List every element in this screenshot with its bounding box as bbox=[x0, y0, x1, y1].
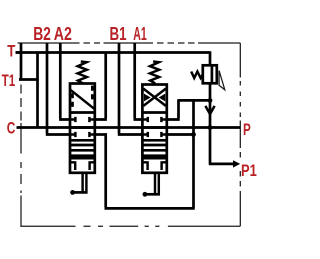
V2 stem bbox=[83, 173, 87, 194]
relief valve adjust flag bbox=[219, 71, 225, 90]
V1 ladder lines bbox=[142, 145, 166, 156]
V2 bottom box pins bbox=[70, 161, 95, 170]
enclosure border left (dashed lower part) bbox=[20, 85, 22, 227]
wire right valve row2 to loop bbox=[167, 133, 194, 136]
wire T line bbox=[16, 51, 211, 54]
valve V2 body boxes bbox=[70, 84, 95, 173]
P1 arrowhead bbox=[233, 160, 240, 167]
valve V1 body boxes bbox=[142, 85, 166, 173]
V2 lever ball bbox=[70, 190, 75, 195]
V2 box1 right pins bbox=[92, 86, 95, 100]
wire A2 port line bbox=[59, 43, 70, 120]
wire T1 to T drop line bbox=[19, 78, 39, 81]
V1 row2 pins bbox=[142, 132, 166, 137]
V2 ladder lines bbox=[70, 145, 95, 156]
left border solid port segment (T to T1) bbox=[20, 43, 23, 80]
V1 lever ball bbox=[143, 192, 148, 197]
wire left valve row2 to sump loop bbox=[95, 133, 107, 136]
relief valve piston bar bbox=[211, 65, 214, 83]
svg-text:A1: A1 bbox=[133, 23, 147, 44]
svg-text:P: P bbox=[243, 120, 251, 139]
V2 float position diagonal bbox=[70, 90, 95, 110]
svg-text:T1: T1 bbox=[2, 71, 16, 90]
V1 lever bbox=[145, 193, 160, 196]
wire P-C gallery line bbox=[17, 126, 241, 129]
V2 row2 pins bbox=[70, 132, 95, 137]
V2 lever bbox=[73, 191, 88, 194]
wire B2 port line bbox=[46, 43, 70, 135]
enclosure border top bbox=[18, 42, 241, 44]
junction dot row2 loop bbox=[191, 132, 196, 137]
wire A1 port line bbox=[134, 43, 143, 120]
wire B1 port line bbox=[118, 43, 143, 135]
V1 closed position X bbox=[143, 89, 165, 106]
wire sump rectangle left/bottom/right bbox=[105, 100, 195, 208]
svg-text:B2: B2 bbox=[33, 23, 51, 44]
enclosure border right bbox=[239, 43, 241, 226]
V2 row1 pins bbox=[70, 117, 95, 122]
V1 right triangle bbox=[159, 94, 166, 102]
svg-text:T: T bbox=[7, 42, 16, 61]
flow arrow on drain bbox=[205, 106, 214, 114]
V1 stem bbox=[155, 173, 159, 196]
svg-text:P1: P1 bbox=[241, 161, 257, 180]
spring V1 bbox=[150, 62, 159, 84]
wire right valve tank bridge bbox=[167, 99, 210, 119]
wire left valve tank riser bbox=[95, 53, 107, 120]
relief valve RV1 riser top bbox=[209, 51, 212, 65]
svg-text:C: C bbox=[7, 118, 16, 137]
relief valve body bbox=[203, 65, 217, 83]
svg-text:A2: A2 bbox=[54, 23, 72, 44]
svg-text:B1: B1 bbox=[110, 23, 127, 44]
junction dot P line bbox=[208, 125, 213, 130]
V1 row1 pins bbox=[142, 117, 166, 122]
wire P1 takeoff bbox=[209, 128, 235, 164]
junction dot bridge-drain bbox=[208, 98, 213, 103]
relief valve spring bbox=[191, 72, 203, 79]
V1 left triangle bbox=[144, 94, 151, 102]
port T tick bbox=[16, 51, 23, 54]
wire T drop to C line bbox=[36, 53, 39, 127]
enclosure border bottom bbox=[20, 225, 240, 227]
V2 box1 left pins bbox=[70, 93, 73, 107]
V1 bottom box pins bbox=[142, 161, 166, 170]
relief valve drain line bbox=[209, 83, 212, 127]
spring V2 bbox=[78, 62, 87, 84]
